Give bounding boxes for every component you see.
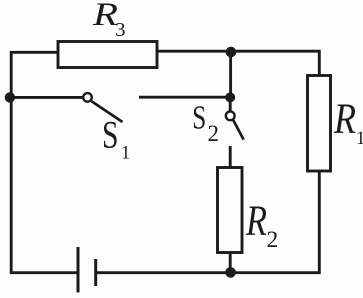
resistor R3	[58, 42, 157, 68]
node junction top	[226, 47, 237, 58]
wire	[229, 253, 232, 273]
resistor R2	[218, 168, 243, 253]
wire	[139, 96, 229, 99]
wire	[229, 97, 232, 111]
node junction mid	[225, 92, 235, 102]
wire	[229, 146, 232, 168]
wire	[11, 96, 82, 99]
svg-text:2: 2	[267, 227, 279, 253]
switch S2	[226, 111, 235, 120]
switch S1	[83, 93, 92, 102]
battery	[77, 247, 80, 293]
wire	[97, 171, 320, 273]
wire	[11, 52, 77, 272]
svg-text:S: S	[102, 113, 119, 156]
svg-text:R: R	[245, 198, 267, 245]
svg-text:1: 1	[121, 144, 130, 164]
wire	[158, 51, 319, 76]
resistor R1	[308, 76, 331, 172]
svg-text:R: R	[92, 0, 118, 33]
svg-text:3: 3	[115, 19, 125, 41]
wire	[229, 51, 232, 97]
node junction left	[5, 92, 15, 102]
svg-text:R: R	[333, 95, 356, 143]
node junction bottom	[225, 267, 236, 278]
svg-text:2: 2	[208, 121, 220, 146]
svg-text:S: S	[192, 100, 206, 137]
svg-text:1: 1	[356, 129, 363, 149]
